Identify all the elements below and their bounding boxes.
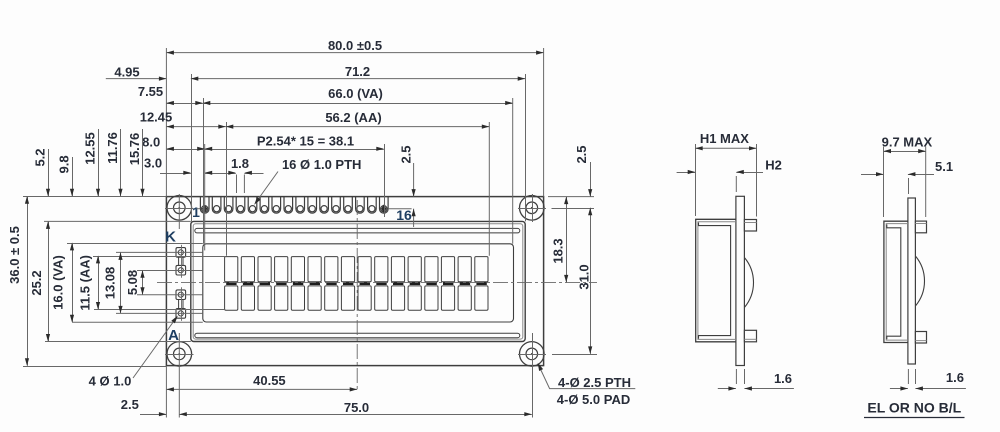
leader 4-dia holes — [539, 366, 635, 389]
svg-text:4-Ø 2.5 PTH: 4-Ø 2.5 PTH — [558, 375, 631, 390]
dim 56.2 (AA) — [226, 126, 490, 128]
pin-center extension lines — [196, 208, 200, 210]
dim P2.54* 15 = 38.1 — [205, 149, 384, 151]
vertical centerline — [356, 200, 358, 391]
svg-text:75.0: 75.0 — [344, 400, 369, 415]
bottom ext lines — [165, 366, 167, 418]
horizontal centerline — [157, 282, 597, 284]
svg-text:9.7 MAX: 9.7 MAX — [882, 134, 933, 149]
svg-text:4.95: 4.95 — [114, 64, 139, 79]
display window (VA) — [203, 244, 514, 322]
dim 66.0 (VA) — [203, 103, 513, 105]
right ext lines — [548, 196, 594, 198]
svg-text:71.2: 71.2 — [345, 64, 370, 79]
svg-text:11.76: 11.76 — [105, 132, 120, 164]
svg-text:P2.54* 15 = 38.1: P2.54* 15 = 38.1 — [257, 134, 354, 149]
svg-text:1.6: 1.6 — [774, 371, 792, 386]
dim 1.6 side1 — [735, 369, 737, 384]
side view 2 bottom tab — [915, 332, 926, 344]
side view 1 bottom tab — [744, 330, 756, 342]
hole crosshairs — [165, 208, 194, 210]
mounting hole bottom-right — [520, 342, 545, 367]
side view 1 top tab — [744, 220, 756, 232]
dim 40.55 — [166, 388, 357, 390]
mounting hole top-left — [167, 196, 192, 221]
svg-text:3.0: 3.0 — [144, 156, 162, 171]
svg-text:2.5: 2.5 — [574, 145, 589, 163]
dim H2 — [677, 172, 696, 174]
pin pads 1-16 — [200, 197, 209, 213]
svg-text:1: 1 — [192, 204, 200, 220]
bezel top slot — [195, 228, 520, 233]
svg-text:K: K — [165, 229, 176, 246]
dim 12.45 — [166, 126, 225, 128]
side view 2 PCB — [908, 198, 916, 364]
side view 1 PCB — [736, 196, 745, 365]
bezel outer — [191, 221, 525, 341]
side view 1 backlight bump — [744, 258, 753, 308]
svg-text:1.8: 1.8 — [231, 156, 249, 171]
svg-text:80.0 ±0.5: 80.0 ±0.5 — [328, 38, 382, 53]
mounting hole top-right — [520, 196, 545, 221]
character cells — [225, 257, 238, 282]
dim 1.6 side2 — [907, 369, 909, 384]
dim 8.0 — [166, 149, 204, 151]
dim 3.0 — [160, 173, 191, 175]
dim 75.0 — [179, 414, 532, 416]
backlight pads K/A — [176, 248, 186, 258]
svg-text:2.5: 2.5 — [121, 397, 139, 412]
svg-text:8.0: 8.0 — [142, 134, 160, 149]
svg-text:4 Ø 1.0: 4 Ø 1.0 — [89, 374, 132, 389]
svg-text:5.2: 5.2 — [32, 148, 47, 166]
svg-text:25.2: 25.2 — [29, 270, 44, 295]
svg-text:56.2 (AA): 56.2 (AA) — [325, 110, 381, 125]
bezel bottom slot — [195, 333, 520, 338]
svg-text:5.08: 5.08 — [125, 270, 140, 295]
svg-text:13.08: 13.08 — [103, 267, 118, 300]
svg-text:18.3: 18.3 — [551, 238, 566, 263]
svg-text:16.0 (VA): 16.0 (VA) — [51, 255, 66, 310]
PCB outline — [166, 197, 543, 366]
dim 9.7 MAX — [883, 147, 885, 218]
svg-text:5.1: 5.1 — [935, 159, 953, 174]
dim 80.0 +/-0.5 — [166, 52, 543, 54]
side view 2 body — [884, 221, 908, 342]
dim H1 MAX — [695, 144, 697, 216]
dim 7.55 — [166, 103, 202, 105]
svg-text:12.55: 12.55 — [82, 132, 97, 165]
svg-text:11.5 (AA): 11.5 (AA) — [78, 255, 93, 311]
left ext lines — [23, 196, 166, 198]
svg-text:40.55: 40.55 — [253, 373, 286, 388]
svg-text:2.5: 2.5 — [399, 145, 414, 163]
svg-text:7.55: 7.55 — [138, 84, 163, 99]
svg-text:15.76: 15.76 — [127, 133, 142, 166]
dim 2.5 bottom — [140, 414, 166, 416]
dim 5.1 — [861, 174, 884, 176]
dim 4.95 — [106, 78, 167, 80]
ext lines top — [165, 48, 167, 197]
side view 1 body — [696, 219, 736, 341]
side view 2 backlight bump — [915, 256, 924, 306]
svg-text:36.0 ± 0.5: 36.0 ± 0.5 — [7, 226, 22, 284]
svg-text:EL OR NO B/L: EL OR NO B/L — [867, 400, 961, 416]
svg-text:1.6: 1.6 — [946, 370, 964, 385]
svg-text:12.45: 12.45 — [140, 109, 173, 124]
svg-text:4-Ø 5.0 PAD: 4-Ø 5.0 PAD — [557, 392, 630, 407]
dim 71.2 — [191, 78, 525, 80]
svg-text:H1 MAX: H1 MAX — [700, 131, 749, 146]
svg-text:9.8: 9.8 — [56, 155, 71, 173]
svg-text:H2: H2 — [765, 158, 782, 173]
mounting hole bottom-left — [167, 342, 192, 367]
svg-text:16 Ø 1.0 PTH: 16 Ø 1.0 PTH — [282, 157, 361, 172]
dim 1.8 — [217, 173, 236, 175]
bezel inner edge — [193, 224, 523, 339]
svg-text:16: 16 — [396, 207, 412, 223]
svg-text:31.0: 31.0 — [577, 264, 592, 289]
side view 2 top tab — [915, 221, 926, 233]
svg-text:66.0 (VA): 66.0 (VA) — [328, 86, 383, 101]
